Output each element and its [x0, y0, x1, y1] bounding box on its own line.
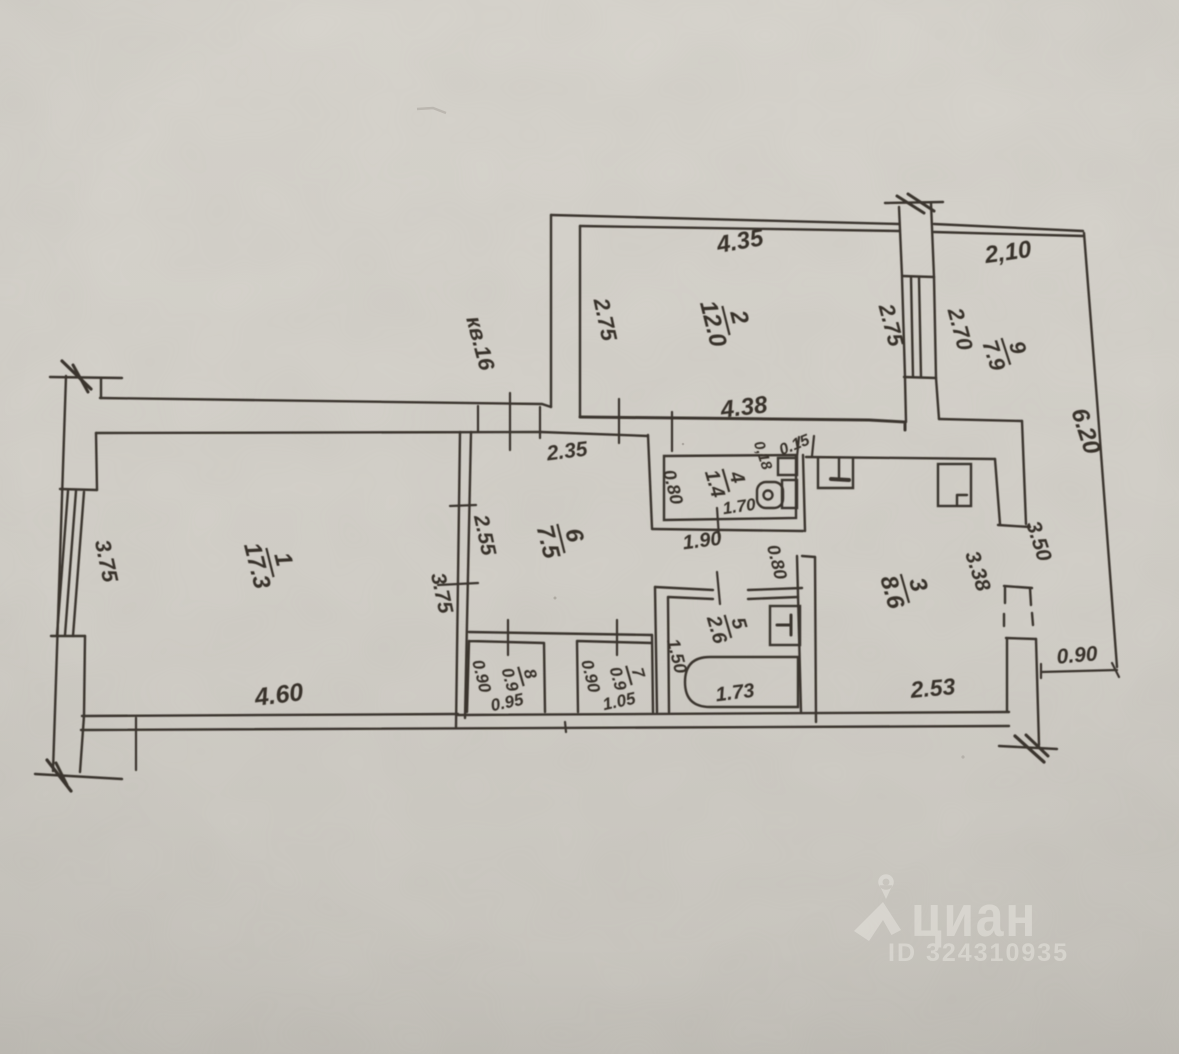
column room2/balcony left edge: [899, 207, 902, 276]
0.90 step tick b: [1112, 663, 1119, 677]
wall: left outer: [53, 376, 66, 771]
wall: room 2 bottom (4.38): [580, 417, 905, 430]
toilet vent box: [778, 458, 797, 475]
wall: kitchen right connector: [998, 525, 1030, 527]
column below window left: [905, 378, 906, 422]
wall: room 2 top outer: [551, 215, 899, 224]
wall: hall top right: [541, 432, 648, 436]
room 8 label: [497, 660, 542, 694]
bathtub: [685, 657, 798, 707]
wall: room 2 left inner: [579, 226, 581, 416]
column window glazing: [911, 277, 913, 377]
bath room 5 outer top: [655, 587, 802, 590]
kitchen stove box: [818, 458, 853, 488]
break bottom-left slashes: [47, 760, 71, 791]
column left lower: [902, 277, 905, 377]
break top-left line: [50, 377, 122, 378]
tick divider a: [450, 505, 476, 506]
tick bottom mid: [565, 722, 566, 732]
column right lower: [934, 277, 936, 378]
wall: room 1 top inner: [96, 432, 541, 433]
faint dot room3: [961, 755, 964, 758]
tick closet7 top: [616, 620, 618, 655]
toilet room 4 rect: [664, 455, 796, 520]
wall: room 2 top inner: [580, 226, 899, 231]
bath sink: [770, 606, 800, 645]
room 5 label: [702, 606, 753, 647]
room 2 label: [694, 291, 758, 350]
watermark cian text: [911, 885, 1037, 949]
column window sill bottom: [904, 377, 936, 378]
wall: kitchen left: [815, 557, 816, 722]
room 7 label: [605, 659, 650, 693]
kitchen window bracket top: [1004, 586, 1032, 588]
wall: kitchen bottom upper: [458, 712, 1009, 715]
closet/hall bottom wall: [469, 632, 652, 635]
bath room 5 outer left: [655, 587, 657, 712]
tick bath door: [717, 572, 720, 604]
tick kv16 c: [539, 407, 541, 438]
wall: kitchen right inner: [995, 459, 1000, 524]
kitchen sink notch: [957, 495, 967, 505]
window room 1 glazing: [57, 491, 68, 635]
column room2/balcony right edge: [931, 203, 934, 277]
wall: lobby bottom: [652, 529, 803, 531]
wall: balcony top inner: [934, 232, 1083, 236]
wall: kv16 border outer: [100, 398, 551, 407]
break top-left step: [100, 378, 102, 398]
faint pencil smudge top: [417, 108, 446, 113]
kitchen sink: [938, 464, 971, 506]
kitchen window dashes: [1003, 614, 1005, 626]
svg-text:ID 324310935: ID 324310935: [888, 939, 1069, 967]
wall: room 1 left inner lower: [84, 636, 85, 716]
wall: kitchen right outer upper: [1022, 421, 1026, 524]
wall: kitchen left stub: [802, 556, 815, 557]
toilet tank: [782, 480, 797, 508]
column window sill top: [902, 276, 934, 277]
toilet bowl circle: [764, 491, 773, 500]
room 9 label: [977, 329, 1034, 374]
wall: kitchen top: [806, 457, 995, 459]
0.90 step line: [1041, 670, 1117, 672]
break top-left slashes: [62, 361, 91, 389]
tick hall top b: [671, 412, 673, 451]
tick hall top a: [618, 399, 620, 443]
tick kv16 a: [477, 406, 479, 431]
window room 1 sill bottom: [51, 635, 85, 637]
break top-right slashes: [897, 196, 924, 213]
window room 1 sill top: [60, 489, 97, 490]
tick kv16 b: [509, 393, 511, 450]
bath room 5 inner: [668, 597, 798, 712]
break bottom-right line: [999, 746, 1057, 749]
wall: divider room1/hall line2: [465, 432, 471, 718]
closet 7 rect: [577, 635, 653, 712]
break bottom-left line: [35, 774, 122, 779]
tick closet8 top: [507, 620, 509, 655]
wall: apartment bottom lower: [81, 726, 1009, 730]
tick room1 bottom: [135, 718, 137, 770]
room 4 label: [700, 461, 751, 500]
room 1 label: [238, 533, 302, 592]
wall: lobby right upper: [803, 455, 805, 531]
watermark pin: [878, 874, 894, 899]
wall: balcony right (6.20): [1084, 233, 1117, 667]
wall: room 1 left inner upper: [96, 433, 97, 490]
room 3 label: [874, 565, 935, 613]
wall: balcony top outer: [934, 224, 1083, 231]
column below window right: [936, 378, 939, 419]
wall: balcony bottom: [939, 419, 1022, 421]
closet 8 rect: [467, 641, 545, 712]
wall: room 1 bottom upper: [82, 714, 458, 716]
faint dot toilet: [682, 443, 685, 446]
wall: bath right: [797, 556, 801, 712]
wall: lobby left: [648, 435, 652, 528]
kitchen right column lower: [1006, 638, 1036, 639]
faint dot hallway: [554, 597, 557, 600]
0.90 step tick a: [1040, 664, 1042, 678]
watermark person: [854, 902, 901, 941]
tick lobby 1.90: [717, 508, 719, 537]
wall: left inner below bottom: [80, 716, 84, 772]
tick 0.15 b: [812, 436, 814, 456]
kitchen stove symbol: [838, 458, 840, 478]
break top-right line: [885, 202, 943, 203]
bath sink tap: [777, 615, 791, 635]
wall: room 2 left outer: [550, 215, 552, 407]
room 6 label: [531, 516, 592, 562]
toilet bowl: [757, 482, 783, 508]
tick divider b: [438, 583, 478, 585]
wall: divider room1/hall line1: [456, 432, 460, 727]
break bottom-right slashes: [1015, 736, 1044, 762]
tick 0.15 a: [797, 437, 799, 457]
